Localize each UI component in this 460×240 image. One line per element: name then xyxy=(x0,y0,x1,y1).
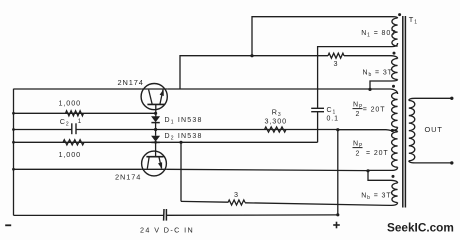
wire bottom rail left of break xyxy=(14,214,164,216)
label plus terminal xyxy=(333,222,340,229)
wire Nb1 exit curve xyxy=(392,80,398,82)
node junction w4 / lower-3-ohm drop xyxy=(179,141,182,144)
wire D2 cathode to Q2 base xyxy=(155,142,157,157)
transistor Q2 collector leg xyxy=(159,157,162,169)
wire +24 drop from w3 to bottom rail xyxy=(337,130,339,215)
wire bottom rail right of break xyxy=(166,214,337,216)
node bus junction w4 xyxy=(12,141,15,144)
node junction top-rail / 3-ohm wire xyxy=(250,54,253,57)
wire Np2 entry curve xyxy=(392,130,397,132)
diode D2 xyxy=(151,136,160,142)
transistor Q2 2N174 body circle xyxy=(142,151,167,176)
wire top rail xyxy=(252,17,398,56)
node bus junction w5 xyxy=(12,168,15,171)
phasing dot Nb lower xyxy=(392,175,395,178)
transistor Q1 collector arrow xyxy=(160,89,164,96)
svg-text:1,000: 1,000 xyxy=(59,99,82,108)
transistor Q1 collector leg xyxy=(160,90,163,105)
label minus terminal xyxy=(5,224,11,226)
phasing dot N1 xyxy=(398,13,401,16)
svg-text:= 20T: = 20T xyxy=(366,150,389,157)
transformer winding Nb upper (3T) xyxy=(392,59,398,80)
wire w3 to D2 anode xyxy=(155,130,157,136)
wire N1 bottom to C1 riser xyxy=(318,43,398,108)
resistor 3 (lower feedback) xyxy=(228,200,245,205)
node bus junction w2 xyxy=(12,112,15,115)
transformer winding Np/2 lower (20T) xyxy=(392,132,398,167)
svg-text:= 20T: = 20T xyxy=(363,106,386,113)
node secondary top terminal xyxy=(450,97,453,100)
capacitor C1 bottom plate xyxy=(311,111,324,113)
wire w5 from bus to Q2 xyxy=(14,168,142,170)
resistor 3 (upper feedback) xyxy=(328,53,344,58)
resistor 1,000 lower xyxy=(63,140,84,145)
svg-text:0.1: 0.1 xyxy=(327,115,339,122)
svg-text:2: 2 xyxy=(356,111,361,118)
node secondary bottom terminal xyxy=(450,161,453,164)
node junction w3 / +24V drop xyxy=(336,128,339,131)
wire from resistor 3 to Nb winding top xyxy=(344,56,398,59)
svg-text:3: 3 xyxy=(334,59,339,68)
battery break bar right xyxy=(165,209,167,221)
transistor Q1 internal through-line xyxy=(141,88,167,90)
label Np/2 = 20T lower xyxy=(353,141,389,158)
transistor Q1 emitter leg xyxy=(149,90,153,105)
wire w5 through Q2 to transformer xyxy=(166,169,368,170)
node junction w5 / Np2 bottom / Nb2 jog xyxy=(366,169,369,172)
svg-text:24 V D-C IN: 24 V D-C IN xyxy=(140,225,194,234)
transistor Q1 2N174 body circle xyxy=(141,84,167,110)
wire D1 cathode to w3 xyxy=(155,123,157,130)
svg-text:1,000: 1,000 xyxy=(59,150,82,159)
svg-text:OUT: OUT xyxy=(425,125,443,134)
svg-text:SeekIC.com: SeekIC.com xyxy=(387,221,454,235)
wire w3 center-tap segment xyxy=(338,130,393,132)
node junction w2 / diode column xyxy=(154,112,157,115)
wire 3-ohm feedback wire upper xyxy=(180,56,328,89)
capacitor C1 top plate xyxy=(311,107,324,109)
diode D1 xyxy=(151,116,160,122)
node bus junction w3 xyxy=(12,128,15,131)
transistor Q2 collector arrow xyxy=(158,162,162,169)
diode D2 cathode bar xyxy=(151,141,159,143)
transformer winding Nb lower (3T) xyxy=(392,183,398,203)
resistor R3 3,300 xyxy=(265,127,287,132)
node junction Nb1-jog / collector run xyxy=(368,88,371,91)
resistor 1,000 upper xyxy=(66,111,84,116)
wire Nb1 bottom jog down to collector run xyxy=(370,81,392,89)
wire lower 3-ohm wire left part xyxy=(181,200,228,203)
battery break bar left xyxy=(163,209,165,221)
transistor Q2 emitter leg xyxy=(147,157,149,169)
svg-text:2N174: 2N174 xyxy=(115,173,141,182)
wire lower 3-ohm wire right part to Nb2 bottom xyxy=(245,203,398,206)
transistor Q2 internal through-line xyxy=(142,168,167,170)
node center tap dot at Np/2 junction xyxy=(391,129,394,132)
svg-text:1: 1 xyxy=(78,118,82,125)
phasing dot Nb1 xyxy=(393,52,396,55)
wire left bus (negative rail vertical) xyxy=(13,89,15,216)
svg-text:2: 2 xyxy=(356,151,361,158)
wire w2 from bus to diode column xyxy=(14,112,156,114)
svg-text:2N174: 2N174 xyxy=(118,78,144,87)
node junction w3 / diode column xyxy=(154,128,157,131)
wire w1 through Q1 collector run to transformer xyxy=(167,89,397,94)
wire C1 bottom to w4 corner xyxy=(317,112,319,143)
label Np/2 = 20T upper xyxy=(353,102,386,119)
node junction w4 / D2 cathode xyxy=(154,141,157,144)
node junction +24 drop / bottom rail xyxy=(336,213,339,216)
wire vertical drop to lower 3-ohm xyxy=(180,142,182,201)
wire Np1 exit curve xyxy=(392,127,397,130)
transformer secondary winding xyxy=(409,101,415,161)
transformer winding Np/2 upper (20T) xyxy=(392,93,398,128)
phasing dot Np/2 upper xyxy=(392,85,395,88)
wire w3 from bus to C2 xyxy=(14,129,72,131)
wire w3 from C2 to R3 and center tap xyxy=(76,129,338,131)
wire jog down to Nb2 top xyxy=(368,171,398,183)
wire Np2 exit curve xyxy=(392,167,398,170)
transformer T1 core xyxy=(403,16,406,208)
wire w4 from bus to C1 riser xyxy=(14,141,318,143)
wire Np2-bottom into junction xyxy=(368,169,392,171)
wire secondary bottom lead xyxy=(409,161,452,163)
svg-text:3: 3 xyxy=(234,190,239,199)
transistor Q1 base bar xyxy=(147,103,164,105)
wire secondary top lead xyxy=(409,98,452,100)
wire w1 base wire from bus to Q1 xyxy=(14,88,142,90)
wire Q1 base to D1 xyxy=(155,104,157,116)
transistor Q2 base bar xyxy=(146,156,163,158)
transformer winding N1 (80T) xyxy=(392,18,398,46)
capacitor C2 plates xyxy=(72,123,76,134)
svg-text:3,300: 3,300 xyxy=(265,116,288,125)
